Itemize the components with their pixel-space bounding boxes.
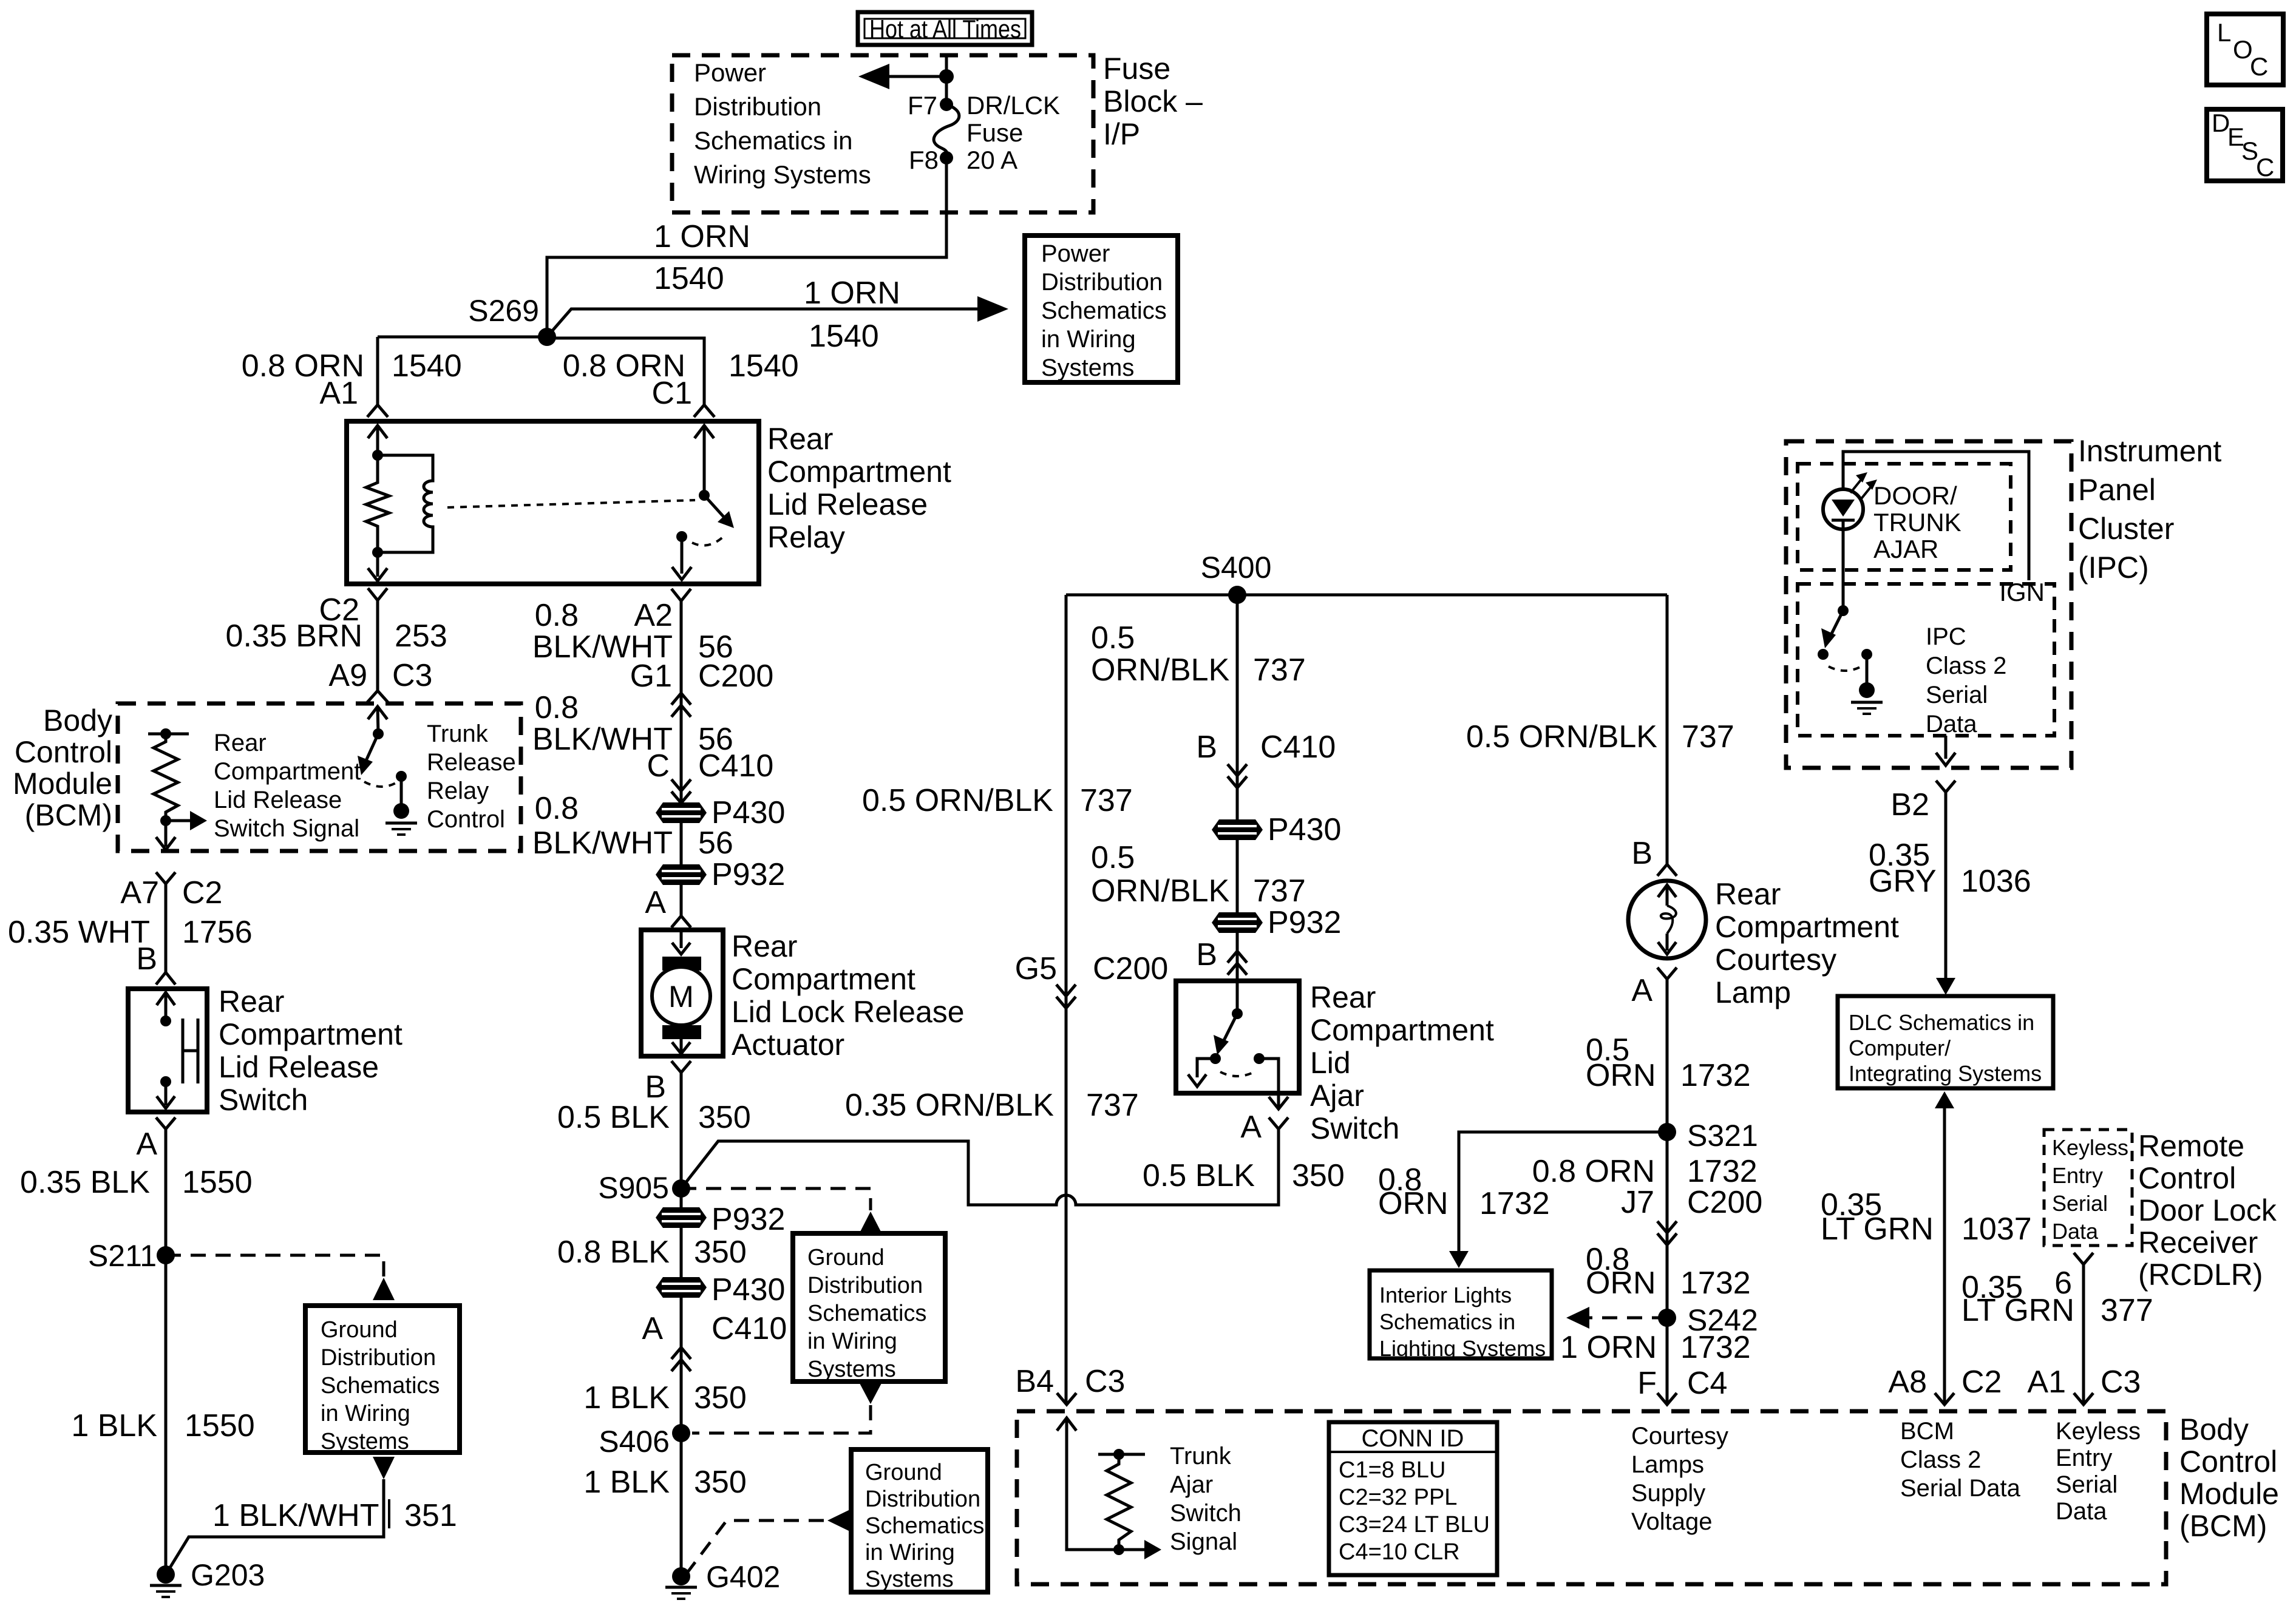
wire S400 down to lid ajar switch B [1236, 595, 1239, 981]
IPC label [2078, 434, 2221, 585]
switch S1 internals [157, 992, 198, 1108]
svg-text:Distribution: Distribution [807, 1273, 923, 1298]
svg-text:Serial: Serial [2052, 1191, 2108, 1216]
svg-text:Interior Lights: Interior Lights [1379, 1283, 1512, 1307]
svg-text:Entry: Entry [2052, 1163, 2103, 1188]
wire from hot feed down to F7 [945, 55, 948, 104]
wire S400 bus [1066, 594, 1667, 597]
dashed reference S211 to ground box [166, 1255, 395, 1300]
svg-text:BLK/WHT: BLK/WHT [532, 825, 673, 861]
pin A connector chevron above actuator [645, 885, 691, 927]
wire lamp A to F/C4 [1666, 979, 1669, 1404]
svg-text:A: A [642, 1311, 663, 1346]
relay coil L1 [378, 455, 433, 552]
svg-text:Actuator: Actuator [732, 1028, 844, 1062]
wire label 0.35 BLK 1550 [20, 1127, 253, 1200]
arrow into DLC box [1936, 978, 1955, 995]
inline connector P932 (ajar leg) [1212, 905, 1341, 940]
svg-text:Serial: Serial [1926, 682, 1988, 708]
svg-text:Block –: Block – [1103, 84, 1203, 118]
switch S2 box: Rear Compartment Lid Ajar Switch [1176, 981, 1299, 1093]
svg-text:Rear: Rear [732, 929, 797, 963]
svg-text:Remote: Remote [2138, 1129, 2244, 1163]
svg-text:(RCDLR): (RCDLR) [2138, 1258, 2263, 1292]
svg-text:C3: C3 [1085, 1364, 1125, 1399]
svg-text:1732: 1732 [1680, 1058, 1751, 1093]
svg-text:Fuse: Fuse [966, 118, 1023, 147]
svg-text:DOOR/: DOOR/ [1873, 481, 1957, 510]
svg-text:1 BLK: 1 BLK [71, 1408, 157, 1443]
wire label 0.8 ORN 1732 (branch) [1378, 1162, 1550, 1221]
wire 6 to A1 0.35 LT GRN 377 [2082, 1264, 2085, 1404]
svg-text:Switch Signal: Switch Signal [214, 815, 359, 842]
switch S1 label [219, 985, 402, 1117]
svg-text:0.5 BLK: 0.5 BLK [1143, 1158, 1255, 1193]
pin F/C4 labels [1637, 1366, 1727, 1401]
Hot at All Times label box [858, 12, 1032, 45]
BCM trunk ajar signal arrow [1119, 1540, 1161, 1559]
svg-text:Serial Data: Serial Data [1900, 1475, 2021, 1502]
pin A1/C3 connector chevron [2074, 1393, 2093, 1405]
svg-text:Switch: Switch [219, 1083, 308, 1117]
pin F/C4 connector chevron [1657, 1393, 1677, 1405]
Fuse Block - I/P title [1103, 52, 1203, 151]
svg-text:Lid Release: Lid Release [767, 487, 928, 521]
relay internal node bottom [372, 547, 383, 558]
pin A1 connector chevron [367, 405, 388, 417]
svg-text:1540: 1540 [809, 319, 879, 354]
svg-text:1550: 1550 [185, 1408, 255, 1443]
svg-text:Cluster: Cluster [2078, 512, 2174, 546]
svg-text:Ground: Ground [807, 1245, 885, 1270]
svg-text:1540: 1540 [654, 261, 724, 296]
svg-text:1550: 1550 [182, 1165, 253, 1200]
svg-text:20 A: 20 A [966, 146, 1017, 174]
svg-text:Hot at All Times: Hot at All Times [869, 15, 1021, 43]
LOC reference box [2207, 14, 2283, 85]
svg-text:Relay: Relay [767, 520, 845, 554]
dashed reference G402 to lower ground box [687, 1510, 850, 1573]
svg-text:G1: G1 [630, 659, 672, 694]
svg-text:in Wiring: in Wiring [321, 1401, 410, 1426]
svg-text:1540: 1540 [729, 348, 799, 384]
wire label 0.5 ORN/BLK 737 (ajar leg) [1091, 840, 1306, 909]
svg-text:G402: G402 [706, 1560, 780, 1594]
pin A7/C2 connector chevron [156, 872, 175, 884]
svg-text:253: 253 [395, 619, 447, 654]
svg-text:F: F [1637, 1366, 1657, 1401]
ground G203 [150, 1558, 265, 1597]
node S269 [468, 294, 556, 346]
svg-text:Computer/: Computer/ [1849, 1036, 1951, 1060]
svg-text:0.8: 0.8 [535, 598, 579, 633]
wire label 0.5 BLK 350 [557, 1100, 751, 1135]
svg-text:F7: F7 [908, 91, 937, 120]
svg-text:A: A [645, 885, 666, 920]
Rear Compartment Lid Release Switch Signal text [214, 730, 361, 842]
svg-text:350: 350 [698, 1100, 751, 1135]
svg-text:0.5: 0.5 [1091, 620, 1135, 656]
splice S905 [598, 1171, 690, 1205]
inline connector P932 [656, 857, 785, 892]
wire A8 to DLC with up arrow [1935, 1091, 1954, 1404]
wire label 0.5 ORN 1732 [1586, 1032, 1751, 1093]
Fuse Block - I/P dashed box [672, 55, 1093, 212]
pin A connector chevron [156, 1117, 175, 1129]
pin 6 connector chevron below keyless box [2054, 1253, 2093, 1301]
svg-text:G203: G203 [191, 1558, 265, 1592]
wire label 0.35 ORN/BLK 737 [845, 1088, 1139, 1123]
Trunk Ajar Switch Signal text [1170, 1443, 1241, 1555]
svg-text:GRY: GRY [1869, 864, 1937, 899]
svg-text:Body: Body [2179, 1412, 2249, 1446]
wire S400 to courtesy lamp B [1666, 595, 1669, 864]
svg-text:S269: S269 [468, 294, 539, 328]
svg-text:0.8 ORN: 0.8 ORN [1532, 1154, 1655, 1189]
svg-text:Compartment: Compartment [214, 758, 361, 785]
wire C2 to A9 0.35 BRN 253 [376, 600, 379, 691]
svg-text:1732: 1732 [1687, 1154, 1758, 1189]
svg-text:Switch: Switch [1310, 1111, 1399, 1145]
svg-text:0.35 BRN: 0.35 BRN [226, 619, 362, 654]
connector G1/C200 pass-through [671, 693, 691, 717]
svg-text:1732: 1732 [1680, 1330, 1751, 1365]
wire label 1 BLK 1550 [71, 1408, 254, 1443]
svg-text:Control: Control [2138, 1161, 2236, 1195]
svg-text:Data: Data [1926, 711, 1977, 737]
svg-text:in Wiring: in Wiring [807, 1329, 897, 1354]
BCM label [13, 703, 112, 832]
svg-text:ORN: ORN [1586, 1058, 1656, 1093]
svg-text:(IPC): (IPC) [2078, 551, 2149, 585]
svg-text:Voltage: Voltage [1631, 1508, 1712, 1535]
svg-text:Panel: Panel [2078, 473, 2156, 507]
svg-text:Module: Module [13, 767, 112, 801]
svg-text:350: 350 [694, 1235, 747, 1270]
wire label 1 ORN 1540 [654, 219, 750, 296]
svg-text:0.5 ORN/BLK: 0.5 ORN/BLK [1466, 719, 1657, 754]
IPC dashed box: Instrument Panel Cluster [1786, 441, 2071, 768]
DOOR/TRUNK AJAR indicator dashed box [1798, 464, 2011, 570]
IPC internal ground [1851, 654, 1883, 714]
DOOR/TRUNK AJAR text [1873, 481, 1961, 563]
CONN ID table [1329, 1422, 1497, 1575]
RCDLR label [2138, 1129, 2277, 1292]
svg-text:0.35 ORN/BLK: 0.35 ORN/BLK [845, 1088, 1054, 1123]
dashed reference S242 to interior lights box [1566, 1307, 1667, 1329]
pin C1 connector chevron [694, 405, 715, 417]
svg-text:Systems: Systems [865, 1567, 954, 1592]
BCM Class 2 Serial Data text [1900, 1418, 2021, 1502]
fuse F7/F8 DR/LCK 20A [908, 91, 1060, 174]
svg-text:BCM: BCM [1900, 1418, 1954, 1445]
svg-text:Lid: Lid [1310, 1046, 1351, 1080]
svg-text:DR/LCK: DR/LCK [966, 91, 1060, 120]
svg-text:351: 351 [404, 1498, 457, 1533]
svg-text:Courtesy: Courtesy [1631, 1423, 1728, 1449]
wire S905 to lid ajar switch A [681, 1129, 1279, 1205]
svg-text:737: 737 [1086, 1088, 1139, 1123]
wire label 0.8 ORN 1732 [1532, 1154, 1763, 1220]
switch S1 box: Rear Compartment Lid Release Switch [128, 989, 207, 1112]
connector C/C410 pass-through [671, 779, 691, 803]
pin A1/C3 labels [2027, 1364, 2141, 1400]
IPC serial data exit arrow [1936, 736, 1955, 765]
BCM switch-signal exit arrow down [156, 821, 175, 850]
svg-text:Power: Power [694, 58, 766, 87]
BCM switch contact [396, 771, 407, 782]
svg-text:J7: J7 [1621, 1185, 1654, 1220]
IGN feed wire loop [1843, 452, 2029, 580]
svg-text:B: B [1631, 836, 1652, 871]
svg-text:Module: Module [2179, 1477, 2279, 1511]
BCM trunk release relay control entry arrow [368, 707, 387, 734]
wire label 0.8 BLK/WHT 56 (A2) [532, 598, 773, 694]
IPC class2 dashed box [1798, 584, 2054, 736]
svg-text:Lamps: Lamps [1631, 1451, 1704, 1478]
svg-text:B2: B2 [1890, 787, 1929, 822]
svg-text:G5: G5 [1015, 951, 1057, 986]
svg-text:Schematics in: Schematics in [1379, 1309, 1515, 1334]
wire label 1 ORN 1540 [804, 276, 900, 354]
svg-text:Entry: Entry [2056, 1445, 2112, 1471]
svg-text:737: 737 [1682, 719, 1734, 754]
svg-text:P932: P932 [1268, 905, 1341, 940]
svg-text:Power: Power [1041, 240, 1110, 267]
svg-text:Ajar: Ajar [1310, 1079, 1364, 1113]
BCM switch-signal resistor [148, 728, 189, 826]
svg-text:Schematics: Schematics [321, 1373, 440, 1398]
svg-text:A8: A8 [1888, 1364, 1927, 1400]
svg-text:Keyless: Keyless [2056, 1418, 2141, 1445]
wire B to G402 [680, 1073, 683, 1576]
ajar switch internals [1188, 981, 1288, 1110]
dashed reference S905 to ground box [681, 1188, 881, 1233]
wire label 0.35 LT GRN 1037 [1821, 1187, 2032, 1247]
relay switch arm [704, 495, 734, 528]
svg-text:I/P: I/P [1103, 117, 1140, 151]
BCM switch pivot [373, 728, 384, 739]
svg-text:ORN/BLK: ORN/BLK [1091, 873, 1230, 909]
svg-text:ORN: ORN [1586, 1266, 1656, 1301]
wire F8 down, left, down to S269 [547, 158, 946, 337]
svg-text:C4=10 CLR: C4=10 CLR [1339, 1539, 1460, 1565]
svg-text:C: C [2250, 52, 2268, 81]
Ground Distribution box (left) [305, 1306, 460, 1454]
svg-text:Body: Body [43, 703, 112, 737]
svg-text:737: 737 [1253, 873, 1306, 909]
BCM upper dashed box: Body Control Module [118, 703, 521, 851]
wire label 0.8 BLK/WHT 56 (C410) [532, 690, 773, 784]
svg-text:Compartment: Compartment [1715, 910, 1899, 944]
svg-text:377: 377 [2101, 1293, 2153, 1328]
svg-text:Distribution: Distribution [694, 92, 821, 121]
svg-text:C2: C2 [182, 875, 222, 910]
svg-text:1 BLK: 1 BLK [583, 1465, 670, 1500]
svg-text:(BCM): (BCM) [25, 798, 112, 832]
BCM trunk ajar entry arrow [1057, 1418, 1119, 1550]
wire A7 to B 0.35 WHT 1756 [165, 884, 168, 972]
svg-text:CONN ID: CONN ID [1362, 1425, 1464, 1452]
svg-text:LT GRN: LT GRN [1961, 1293, 2074, 1328]
svg-text:Trunk: Trunk [427, 720, 489, 747]
relay internal node top [372, 450, 383, 461]
svg-text:S400: S400 [1201, 551, 1272, 585]
wire label 1 ORN 1732 [1560, 1330, 1751, 1365]
pin A9/C3 connector chevron [367, 691, 388, 702]
svg-text:Class 2: Class 2 [1900, 1446, 1981, 1473]
wire label 1 BLK 350 (to G402) [583, 1465, 746, 1500]
svg-text:C200: C200 [698, 659, 773, 694]
inline connector P430 [656, 795, 785, 830]
svg-text:Lighting Systems: Lighting Systems [1379, 1336, 1546, 1361]
svg-text:S211: S211 [88, 1239, 157, 1273]
splice S211 [88, 1239, 175, 1273]
svg-text:Data: Data [2056, 1498, 2107, 1525]
svg-text:S321: S321 [1687, 1119, 1758, 1153]
svg-text:A1: A1 [2027, 1364, 2066, 1400]
svg-text:AJAR: AJAR [1873, 535, 1938, 563]
BCM trunk ajar resistor [1098, 1449, 1145, 1555]
pin B connector chevron [156, 972, 175, 985]
svg-text:Signal: Signal [1170, 1528, 1237, 1555]
svg-text:Data: Data [2052, 1219, 2099, 1244]
connector B/C410 pass-through [1228, 764, 1247, 788]
pin A connector chevron below lamp [1631, 968, 1677, 1008]
svg-text:56: 56 [698, 825, 733, 861]
splice S321 [1658, 1119, 1758, 1153]
svg-text:C2: C2 [1961, 1364, 2002, 1400]
svg-text:Trunk: Trunk [1170, 1443, 1232, 1470]
svg-text:C3: C3 [392, 658, 432, 693]
svg-text:B: B [1196, 937, 1217, 972]
svg-text:0.8: 0.8 [535, 690, 579, 725]
svg-text:C200: C200 [1687, 1185, 1762, 1220]
svg-text:0.5 BLK: 0.5 BLK [557, 1100, 670, 1135]
wire S269 to C1 [547, 338, 704, 405]
svg-text:C3=24 LT BLU: C3=24 LT BLU [1339, 1512, 1490, 1537]
svg-text:A2: A2 [634, 598, 673, 633]
svg-text:A1: A1 [319, 376, 358, 411]
relay label [767, 422, 951, 554]
svg-text:C2=32 PPL: C2=32 PPL [1339, 1485, 1457, 1510]
ground box exit arrow and wire to G203 [166, 1457, 395, 1575]
svg-text:Integrating Systems: Integrating Systems [1849, 1061, 2042, 1086]
Trunk Release Relay Control text [427, 720, 516, 833]
svg-text:C200: C200 [1093, 951, 1168, 986]
svg-text:1037: 1037 [1961, 1212, 2032, 1247]
svg-text:Rear: Rear [767, 422, 833, 456]
svg-text:A: A [1240, 1110, 1262, 1145]
wire label 0.8 BLK/WHT 56 (P932) [532, 791, 733, 861]
pin G5/C200 labels [1015, 951, 1169, 986]
svg-text:P932: P932 [712, 1202, 785, 1237]
svg-text:F8: F8 [909, 146, 939, 174]
svg-text:Control: Control [15, 735, 112, 769]
svg-text:737: 737 [1253, 653, 1306, 688]
junction node in fuse block [939, 69, 954, 84]
IGN label [1996, 580, 2053, 605]
splice S400 [1201, 551, 1272, 604]
svg-text:A9: A9 [328, 658, 367, 693]
svg-text:DLC Schematics in: DLC Schematics in [1849, 1010, 2034, 1035]
BCM switch throw arc [364, 782, 398, 787]
svg-text:Schematics: Schematics [865, 1513, 984, 1539]
actuator label [732, 929, 965, 1062]
svg-text:1 BLK/WHT: 1 BLK/WHT [212, 1498, 379, 1533]
svg-text:Lid Release: Lid Release [214, 787, 342, 813]
svg-text:Compartment: Compartment [767, 455, 951, 489]
wire label 0.5 ORN/BLK 737 [1091, 620, 1336, 765]
actuator M1 box: Rear Compartment Lid Lock Release Actuator [641, 930, 723, 1056]
Fuse Block note text [694, 58, 871, 189]
svg-text:P430: P430 [712, 1272, 785, 1307]
svg-text:Instrument: Instrument [2078, 434, 2221, 468]
svg-text:C410: C410 [698, 748, 773, 784]
svg-text:Compartment: Compartment [219, 1017, 402, 1051]
svg-text:1 ORN: 1 ORN [654, 219, 750, 254]
svg-text:C: C [2256, 153, 2274, 181]
svg-text:Compartment: Compartment [1310, 1013, 1494, 1047]
svg-text:B4: B4 [1015, 1364, 1054, 1399]
svg-text:Lamp: Lamp [1715, 975, 1791, 1009]
splice S406 [599, 1424, 690, 1459]
relay switch feed arrow C1 [695, 425, 714, 495]
svg-text:C1=8 BLU: C1=8 BLU [1339, 1457, 1445, 1483]
svg-text:Compartment: Compartment [732, 962, 915, 996]
svg-text:Release: Release [427, 749, 516, 776]
Interior Lights Schematics box [1370, 1270, 1552, 1361]
svg-text:Ground: Ground [321, 1317, 398, 1343]
svg-text:350: 350 [1292, 1158, 1345, 1193]
svg-text:1756: 1756 [182, 915, 253, 950]
inline connector P932 (ground leg) [656, 1202, 785, 1237]
svg-text:C4: C4 [1687, 1366, 1727, 1401]
svg-text:LT GRN: LT GRN [1821, 1212, 1934, 1247]
svg-text:M: M [668, 980, 694, 1014]
DESC reference box [2207, 109, 2283, 181]
svg-text:Systems: Systems [1041, 354, 1134, 381]
relay actuation dashed link [447, 500, 695, 507]
Power Distribution Schematics box [1025, 236, 1178, 382]
pin B connector chevron above ajar switch [1196, 937, 1247, 975]
svg-text:Distribution: Distribution [1041, 269, 1163, 296]
svg-text:Distribution: Distribution [865, 1486, 980, 1512]
BCM lower label [2179, 1412, 2279, 1543]
pin B connector chevron below actuator [645, 1061, 691, 1105]
svg-text:Receiver: Receiver [2138, 1225, 2258, 1259]
svg-text:Rear: Rear [214, 730, 267, 756]
svg-text:Rear: Rear [1715, 877, 1781, 911]
splice S242 [1658, 1303, 1758, 1337]
svg-text:S406: S406 [599, 1425, 670, 1459]
IPC internal switch [1818, 529, 1872, 671]
svg-text:Ajar: Ajar [1170, 1471, 1213, 1498]
pin B connector chevron above lamp [1631, 836, 1677, 876]
svg-text:Control: Control [427, 806, 505, 833]
relay switch pivot [699, 490, 710, 501]
svg-text:C410: C410 [712, 1311, 787, 1346]
actuator motor symbol [652, 930, 710, 1054]
svg-text:ORN/BLK: ORN/BLK [1091, 653, 1230, 688]
svg-text:1 ORN: 1 ORN [1560, 1330, 1657, 1365]
lamp label [1715, 877, 1899, 1009]
lamp E1: Rear Compartment Courtesy Lamp [1628, 881, 1706, 958]
inline connector P430 (ajar leg) [1212, 812, 1341, 847]
svg-text:Distribution: Distribution [321, 1345, 436, 1371]
BCM switch arm [358, 734, 378, 775]
pin A connector chevron below ajar switch [1240, 1110, 1288, 1145]
